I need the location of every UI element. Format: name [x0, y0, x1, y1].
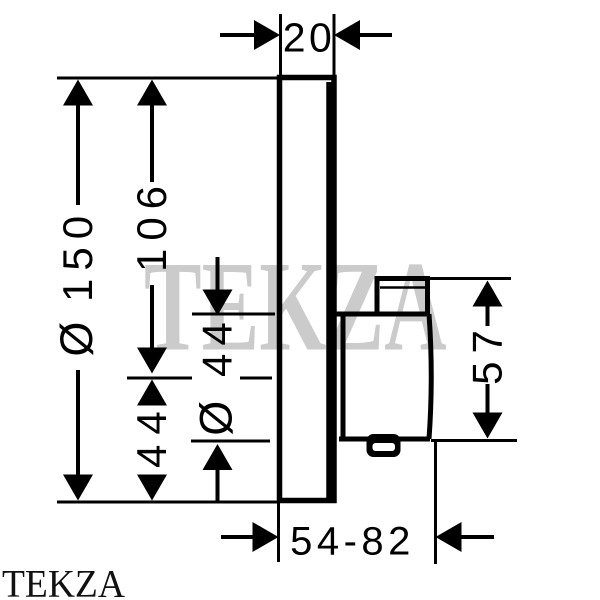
svg-text:Ø 150: Ø 150 [51, 208, 102, 357]
svg-text:106: 106 [128, 178, 175, 272]
svg-text:TEKZA: TEKZA [144, 234, 447, 377]
svg-text:57: 57 [464, 322, 511, 385]
svg-text:54-82: 54-82 [290, 520, 415, 564]
svg-text:20: 20 [283, 15, 336, 61]
svg-text:TEKZA: TEKZA [2, 563, 125, 600]
svg-text:44: 44 [128, 401, 175, 468]
svg-text:Ø 44: Ø 44 [191, 314, 242, 435]
